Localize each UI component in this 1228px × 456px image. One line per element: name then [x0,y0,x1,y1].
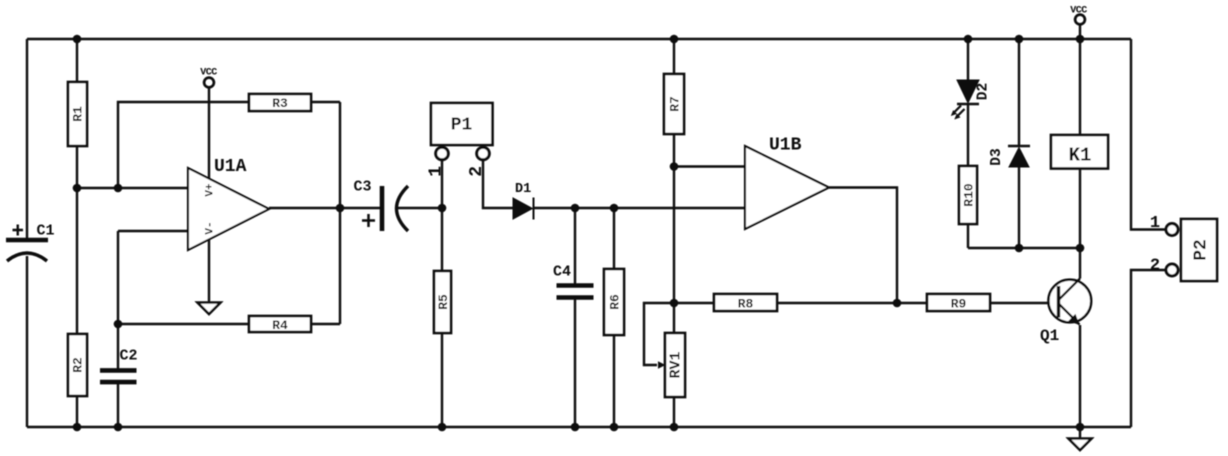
junction D3 relay row [1015,244,1024,253]
resistor R2 [68,334,87,396]
resistor R8 [714,294,777,312]
wire U1A V- pin [208,240,210,303]
svg-text:R1: R1 [71,106,86,122]
junction bottom rail R2 [73,423,82,432]
resistor R1 [68,82,87,146]
junction bottom rail R5 [438,423,447,432]
svg-text:1: 1 [1150,214,1160,233]
junction U1A output feedback [336,204,345,213]
svg-text:2: 2 [1150,257,1160,276]
svg-text:C1: C1 [37,223,55,240]
junction U1B output R8 R9 [893,299,902,308]
relay K1 [1051,135,1108,169]
wire R5 column [441,208,443,427]
wire D2 column [967,39,969,80]
junction R7 U1B input [670,162,679,171]
wire R1 R2 column [76,39,78,427]
svg-text:R10: R10 [962,183,977,207]
wire U1A V+ pin [208,88,210,180]
junction top rail R7 [670,35,679,44]
transistor Q1 [1040,279,1091,346]
resistor R4 [249,316,311,333]
capacitor C4 [557,286,594,298]
wire R6 column [613,208,615,427]
svg-text:R9: R9 [951,297,967,312]
power flag vcc U1A [200,68,217,88]
op-amp U1B [745,136,829,230]
svg-text:D2: D2 [976,83,992,100]
connector P2 [1150,214,1217,281]
junction K1 Q1 collector [1076,244,1085,253]
junction R4 C2 [114,320,123,329]
wire U1A output row [269,207,382,209]
capacitor C3 [362,186,408,231]
junction bottom rail Q1 emitter [1076,423,1085,432]
svg-text:VCC: VCC [1070,6,1087,17]
wire Q1 collector [1079,248,1081,279]
svg-text:2: 2 [467,166,487,177]
junction top rail D3 [1015,35,1024,44]
capacitor C1 [6,225,48,262]
resistor R9 [927,294,990,312]
svg-text:R3: R3 [272,96,288,111]
wire VCC stub right [1079,25,1081,40]
wire R10 column [967,104,969,248]
resistor R7 [664,74,684,134]
resistor R10 [959,166,977,224]
junction top rail D2 [964,35,973,44]
wire R9 to Q1 base [990,302,1056,304]
wire RV1 wiper [644,303,674,365]
diode D2 LED [951,80,992,120]
svg-text:V-: V- [205,221,217,234]
svg-text:D1: D1 [515,182,531,197]
svg-text:C4: C4 [553,264,571,281]
junction R6 top [610,204,619,213]
wire D1 to U1B input row [533,207,745,209]
junction bottom rail R6 [610,423,619,432]
resistor R6 [604,269,624,335]
svg-text:U1A: U1A [214,157,247,177]
wire relay bottom row [968,247,1080,249]
svg-text:R2: R2 [71,357,86,373]
svg-text:R6: R6 [608,294,623,310]
wire P1 pin1 down [441,160,443,208]
svg-text:R4: R4 [272,318,288,333]
junction C4 top [571,204,580,213]
wire D3 column [1018,39,1020,248]
svg-text:C2: C2 [120,348,138,365]
junction bottom rail C4 [571,423,580,432]
svg-text:C3: C3 [354,179,372,196]
wire R8 row [674,302,927,304]
svg-text:D3: D3 [989,148,1005,165]
svg-text:1: 1 [427,166,447,177]
wire left edge [26,39,28,427]
svg-text:Q1: Q1 [1040,327,1059,345]
wire R3 branch up [118,102,340,188]
svg-text:P1: P1 [451,116,473,136]
ground U1A [198,303,221,315]
wire right edge to P2 pin1 [1131,39,1166,230]
wire ground stub right [1079,427,1081,439]
svg-text:RV1: RV1 [668,351,685,378]
capacitor C2 [100,370,137,382]
wire U1B output down to R8 row [829,188,897,304]
svg-text:R7: R7 [668,96,683,112]
wire bottom rail [27,426,1131,428]
junction top rail R1 [73,35,82,44]
wire K1 column [1079,39,1081,248]
op-amp U1A [188,157,269,250]
ground right [1069,439,1092,451]
power flag VCC right [1070,6,1087,25]
wire P1 pin2 down to D1 [483,160,514,208]
wire C4 column [574,208,576,427]
resistor R3 [249,94,311,111]
svg-text:V+: V+ [205,183,217,197]
svg-text:P2: P2 [1192,239,1212,261]
junction P1 pin1 R5 [438,204,447,213]
junction RV1 R8 wiper [670,299,679,308]
junction R1 R2 input row [73,184,82,193]
connector P1 [427,103,493,177]
wire C2 column [117,324,119,427]
potentiometer RV1 [658,333,685,397]
junction R3 branch [114,184,123,193]
wire top rail [27,38,1131,40]
wire noninverting input row U1A [77,187,188,189]
wire U1B noninverting input row [674,165,745,167]
diode D3 [989,146,1030,167]
junction top rail K1 VCC [1076,35,1085,44]
wire inverting input row U1A [118,230,188,232]
svg-text:K1: K1 [1069,145,1092,167]
junction bottom rail C2 [114,423,123,432]
junction bottom rail RV1 [670,423,679,432]
svg-text:U1B: U1B [769,136,802,156]
svg-text:VCC: VCC [200,68,217,79]
wire R4 branch down [118,231,340,324]
wire right edge to P2 pin2 [1131,270,1166,427]
svg-text:R8: R8 [738,297,754,312]
svg-text:R5: R5 [436,294,451,310]
wire feedback column right [339,102,341,324]
resistor R5 [434,271,451,333]
wire R7 RV1 column [673,39,675,427]
wire C3 to P1 pin1 [397,207,442,209]
diode D1 [513,182,534,220]
wire Q1 emitter [1079,325,1081,427]
